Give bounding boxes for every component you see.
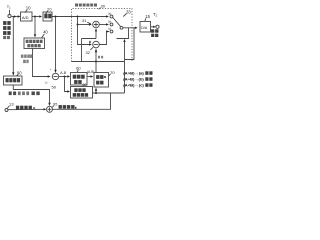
svg-text:|A-B|: |A-B| [87, 70, 94, 74]
terminal T2 circle [156, 25, 159, 28]
label 15 [145, 14, 150, 19]
svg-text:(b): (b) [108, 19, 111, 23]
block U10 A/D converter [21, 12, 33, 21]
node at adder feed [77, 24, 79, 26]
svg-text:30: 30 [101, 3, 106, 8]
svg-text:10: 10 [26, 6, 31, 11]
svg-text:A/D: A/D [22, 15, 29, 20]
svg-text:32: 32 [86, 50, 91, 55]
svg-text:(A>B)→(a): (A>B)→(a) [123, 72, 144, 76]
label 80 [83, 83, 87, 87]
contact labels [108, 12, 111, 31]
svg-text:(a): (a) [108, 12, 111, 16]
svg-text:33: 33 [126, 9, 131, 14]
rail block80 to feedback vertical [93, 92, 125, 94]
wire to adder 31 [78, 24, 90, 26]
label 30 [101, 3, 106, 8]
svg-text:D/A: D/A [141, 26, 148, 30]
up-arrow into block 70 bottom [95, 91, 97, 93]
adder 95 output wire [53, 93, 111, 109]
label 90 [17, 70, 22, 75]
svg-text:(A<B)→(c): (A<B)→(c) [123, 84, 144, 88]
node after A/D [34, 16, 36, 18]
arrowhead into block 20 [39, 15, 42, 17]
label 60 [76, 66, 81, 71]
subtractor U50 [52, 73, 58, 79]
wire tap down to median filter [34, 17, 36, 35]
text blobs on wire 13 [16, 106, 35, 110]
svg-text:80: 80 [83, 83, 87, 87]
svg-text:20: 20 [47, 6, 52, 11]
svg-text:70: 70 [110, 70, 115, 75]
svg-text:13: 13 [9, 102, 14, 107]
up-arrow into subtractor 32 bottom [95, 52, 97, 62]
svg-text:50: 50 [52, 85, 57, 90]
output terminal text blobs [151, 29, 159, 37]
node input junction [14, 16, 16, 18]
wire junction down to adder input [78, 17, 90, 45]
terminal T1 label [7, 4, 11, 10]
input terminal text blobs [3, 21, 11, 39]
wire 50 to block 60 [59, 76, 68, 78]
adder U31 [93, 21, 100, 28]
field label text blobs [21, 55, 32, 64]
median output wire [33, 49, 48, 77]
subtractor 32 output to contact c [99, 32, 109, 45]
arrowhead into contact c [106, 30, 109, 32]
memory write stub [117, 28, 129, 39]
arrowhead into contact a [106, 15, 109, 17]
feedback vertical from bottom [124, 42, 126, 93]
node under 70 [95, 92, 97, 94]
dashed box 30 [72, 9, 133, 62]
SN level text blobs [9, 92, 40, 96]
arrowhead into contact b [106, 23, 109, 25]
output wire pole to D/A [123, 27, 135, 29]
switch contact b [110, 23, 113, 26]
wire adder 31 to contact b [99, 24, 106, 26]
svg-text:15: 15 [145, 14, 150, 19]
wire into block 90 [12, 17, 14, 73]
label 50 [52, 85, 57, 90]
minus sign near 50 [45, 80, 48, 84]
block U90 [4, 76, 23, 85]
arrowhead into median filter [34, 34, 36, 37]
arrowhead into subtractor 32 [89, 43, 92, 45]
block U60 absolute value [71, 73, 88, 86]
legend rows [123, 72, 144, 88]
arrowhead into subtractor 50 [48, 75, 51, 77]
terminal T1 lead [9, 10, 11, 15]
wire tap down to subtractor 50 [55, 17, 57, 71]
node after block 20 [55, 16, 57, 18]
subtractor U32 [93, 41, 100, 48]
block U40 median filter [24, 38, 45, 49]
wire D/A to T2 [151, 26, 154, 28]
svg-text:31: 31 [82, 18, 87, 23]
sign marks near 32 [89, 41, 91, 43]
adder U95 [47, 106, 53, 112]
terminal 13 [5, 109, 8, 112]
label A-B [60, 71, 67, 75]
text blobs on output [59, 105, 77, 109]
node after 50 [64, 76, 66, 78]
switch wiper 33 [113, 17, 121, 26]
node main junction [77, 16, 79, 18]
switch contact c [110, 30, 113, 33]
label 70 [110, 70, 115, 75]
wire input to A/D [11, 16, 18, 18]
feedback stub to adder [82, 39, 97, 62]
label 31 [82, 18, 87, 23]
block U70 [94, 73, 109, 88]
label 40 [43, 30, 48, 35]
block U80 [71, 87, 93, 99]
label 20 [47, 6, 52, 11]
memory write path down [125, 28, 135, 60]
wire 60 to 70 [87, 76, 91, 78]
label 33 [126, 9, 131, 14]
block U20 delay [43, 12, 52, 21]
label 10 [26, 6, 31, 11]
label 13 [9, 102, 14, 107]
arrowhead into A/D [18, 15, 21, 17]
svg-text:(-): (-) [45, 80, 48, 84]
plus sign near 50 [50, 67, 52, 71]
block U15 D/A [140, 22, 151, 33]
svg-text:T1: T1 [7, 4, 11, 10]
label |A-B| [87, 70, 94, 74]
header text blobs [75, 4, 97, 7]
wire 13 to adder 95 [8, 108, 44, 110]
arrowhead into adder 31 [89, 23, 92, 25]
wire A/D to block 20 [32, 16, 40, 18]
svg-text:A-B: A-B [60, 71, 67, 75]
label T2 [153, 12, 158, 18]
label 32 [86, 50, 91, 55]
label 95 [53, 103, 57, 107]
feedback up-arrow into adder 31 bottom [95, 31, 97, 38]
wire block 20 to switch contact a [52, 16, 107, 18]
switch pole [120, 26, 123, 29]
svg-text:60: 60 [76, 66, 81, 71]
svg-text:T2: T2 [153, 12, 158, 18]
terminal T1 circle [8, 15, 11, 18]
feedback rail [72, 61, 125, 63]
wire rail into block 70 top [95, 62, 97, 73]
switch contact a [110, 15, 113, 18]
svg-text:(c): (c) [108, 27, 111, 31]
node on rail [95, 61, 97, 63]
arrowhead into subtractor 50 top [54, 70, 56, 73]
wire 90 output to adder 95 [13, 85, 49, 103]
svg-text:(A≈B)→(b): (A≈B)→(b) [123, 78, 144, 82]
wire down to block 80 [65, 77, 68, 92]
